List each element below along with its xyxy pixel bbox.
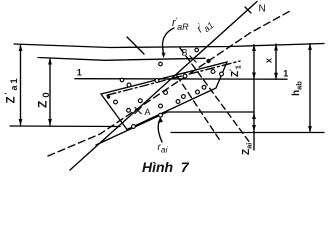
svg-text:x: x	[264, 58, 274, 63]
svg-text:rai: rai	[158, 142, 169, 155]
svg-text:1: 1	[77, 68, 82, 78]
svg-text:N: N	[259, 4, 266, 15]
svg-text:Hình 7: Hình 7	[142, 159, 190, 175]
svg-text:B: B	[182, 48, 188, 58]
svg-text:1: 1	[283, 69, 288, 79]
svg-text:A: A	[145, 107, 151, 117]
